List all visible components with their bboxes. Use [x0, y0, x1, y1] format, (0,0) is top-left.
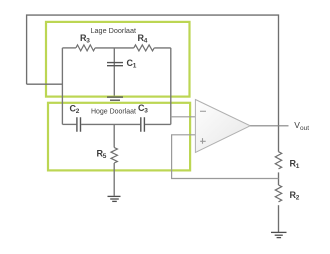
svg-text:Lage Doorlaat: Lage Doorlaat [91, 28, 137, 35]
svg-text:R2: R2 [290, 190, 300, 202]
svg-text:C2: C2 [70, 104, 80, 116]
svg-text:R4: R4 [138, 33, 148, 45]
svg-text:C1: C1 [127, 58, 137, 70]
svg-text:C3: C3 [138, 103, 148, 115]
svg-text:R5: R5 [97, 149, 107, 161]
svg-text:R3: R3 [80, 33, 90, 45]
svg-text:Vout: Vout [294, 120, 309, 132]
svg-text:Hoge Doorlaat: Hoge Doorlaat [91, 108, 136, 115]
svg-text:R1: R1 [290, 159, 300, 171]
